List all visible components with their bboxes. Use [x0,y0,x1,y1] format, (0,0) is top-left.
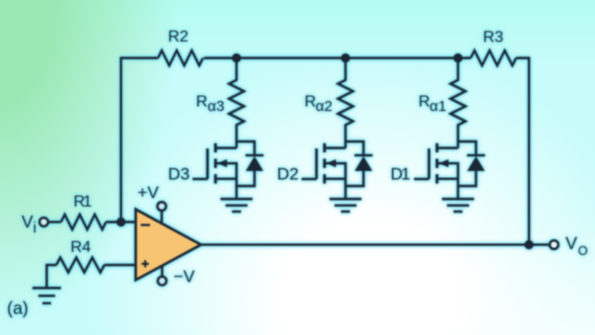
diode D1 triangle [467,156,485,171]
svg-text:R: R [305,94,317,111]
wire right vertical from R3 to output node [516,58,529,245]
MOSFET Q3 body arrowhead [217,159,227,167]
label D1 [391,165,411,184]
ground for Q2 [330,199,362,212]
resistor R-alpha-2 with wire [338,58,353,148]
svg-text:O: O [578,244,588,258]
wire ground to R4 [47,265,57,288]
label Vo [566,233,589,258]
MOSFET Q3 channel segments [214,143,217,183]
MOSFET Q3 body lead with arrow [217,163,237,199]
resistor R1 [61,215,106,230]
diode D1 cathode bar [467,154,485,156]
svg-text:R2: R2 [168,29,189,46]
op-amp plus sign [142,260,149,267]
MOSFET Q2 drain stub [325,147,346,149]
svg-text:1: 1 [401,165,410,184]
MOSFET Q3 source stub [216,178,237,180]
input terminal Vi circle [40,218,49,227]
MOSFET Q3 gate bar [206,149,209,180]
svg-text:V: V [22,212,34,232]
node junction dot minus input [116,217,125,226]
MOSFET Q2 channel segments [323,143,326,183]
supply +V stub [160,211,162,224]
label Vi [22,212,37,237]
node junction dot C (top of R-alpha-1) [453,53,462,62]
MOSFET Q2 gate bar [315,149,318,180]
diode D3 cathode bar [246,154,264,156]
MOSFET Q1 gate lead [414,178,429,180]
MOSFET Q2 body arrowhead [326,159,336,167]
svg-text:α2: α2 [316,98,333,115]
label R-alpha-2 [305,94,333,116]
MOSFET Q2 gate lead [302,178,317,180]
svg-text:R: R [196,94,208,111]
diode D2 cathode bar [355,154,373,156]
svg-text:(a): (a) [7,298,28,318]
MOSFET Q1 drain stub [437,147,458,149]
wire Vi to R1 [48,221,61,223]
supply -V stub [161,266,163,277]
wire op-amp output to Vo [201,243,550,245]
MOSFET Q1 source stub [437,178,458,180]
ground for Q1 [442,199,474,212]
node junction dot output [524,240,533,249]
MOSFET Q1 body arrowhead [439,159,449,167]
resistor R4 [56,258,104,273]
svg-text:R: R [419,94,431,111]
diode D2 triangle [355,156,373,171]
svg-text:α3: α3 [208,98,225,115]
MOSFET Q3 drain stub [216,147,237,149]
diode D2 branch wire [346,142,364,187]
MOSFET Q1 gate bar [428,149,431,180]
svg-text:R4: R4 [71,239,92,256]
output terminal Vo circle [550,240,559,249]
diode D1 branch wire [458,142,476,187]
svg-text:i: i [33,220,36,237]
supply -V circle [158,277,167,286]
wire left feedback loop (node between R1, R2, op-amp minus input) [121,58,158,222]
ground for R4 [32,288,61,303]
label R-alpha-1 [419,94,447,116]
MOSFET Q2 source stub [325,178,346,180]
label R-alpha-3 [196,94,225,116]
diode D3 branch wire [237,142,255,187]
diode D3 triangle [246,156,264,171]
supply +V circle [157,202,166,211]
wire R4 to op-amp plus input [104,264,136,266]
svg-text:V: V [566,233,578,253]
resistor R2 [158,51,203,66]
wire R1 to op-amp minus input [106,221,136,223]
wire top bus from R2 to R3 [204,57,471,59]
node junction dot B (top of R-alpha-2) [341,53,350,62]
svg-text:R3: R3 [483,29,504,46]
resistor R-alpha-3 with wire [229,58,244,148]
resistor R-alpha-1 with wire [451,58,466,148]
op-amp minus sign [141,224,150,226]
MOSFET Q1 body lead with arrow [438,163,458,199]
MOSFET Q2 body lead with arrow [326,163,346,199]
op-amp U1 triangle [136,209,201,280]
svg-text:D3: D3 [168,165,190,184]
svg-text:α1: α1 [430,98,447,115]
node junction dot A (top of R-alpha-3) [232,53,241,62]
ground for Q3 [221,199,253,212]
resistor R3 [471,51,516,66]
svg-text:D2: D2 [277,165,299,184]
MOSFET Q1 channel segments [436,143,439,183]
label R1 [74,194,93,211]
svg-text:+V: +V [138,183,160,202]
MOSFET Q3 gate lead [193,178,208,180]
svg-text:−V: −V [174,267,196,286]
svg-text:1: 1 [83,194,92,211]
